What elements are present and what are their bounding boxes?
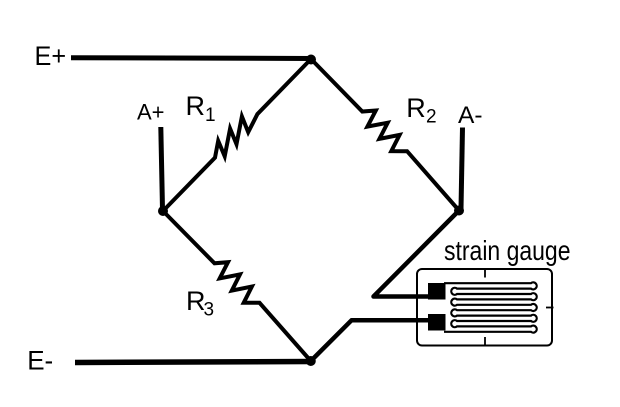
node top junction xyxy=(306,55,316,65)
node left junction xyxy=(158,206,168,216)
strain gauge body outline xyxy=(417,269,552,346)
svg-text:A-: A- xyxy=(458,102,483,129)
wire A+ stub xyxy=(161,127,163,209)
strain gauge upper solder pad xyxy=(428,283,446,300)
wire E+ rail xyxy=(71,55,312,61)
resistor R1 xyxy=(163,59,311,211)
strain gauge top alignment tick xyxy=(484,269,486,278)
strain gauge right alignment tick xyxy=(546,307,554,309)
resistor R3 xyxy=(163,211,311,361)
svg-text:R: R xyxy=(406,93,426,123)
node right junction xyxy=(454,206,464,216)
svg-text:E+: E+ xyxy=(35,41,67,71)
svg-text:1: 1 xyxy=(205,105,216,126)
wire strain gauge upper lead xyxy=(374,211,460,297)
resistor R2 xyxy=(311,59,459,211)
svg-text:2: 2 xyxy=(426,107,437,128)
svg-text:A+: A+ xyxy=(137,100,165,125)
svg-text:3: 3 xyxy=(204,300,215,321)
node bottom junction xyxy=(306,356,316,366)
svg-text:strain gauge: strain gauge xyxy=(444,235,571,266)
label R2 xyxy=(406,93,436,128)
strain gauge lower solder pad xyxy=(428,314,446,331)
svg-text:R: R xyxy=(186,91,206,121)
wire strain gauge lower lead xyxy=(311,320,436,361)
label R1 xyxy=(186,91,216,126)
strain gauge bottom alignment tick xyxy=(484,337,486,346)
wire E- rail xyxy=(75,362,312,363)
wire A- stub xyxy=(461,128,463,210)
svg-text:E-: E- xyxy=(27,346,53,376)
strain gauge grid serpentine xyxy=(444,282,537,332)
label R3 xyxy=(186,286,214,321)
